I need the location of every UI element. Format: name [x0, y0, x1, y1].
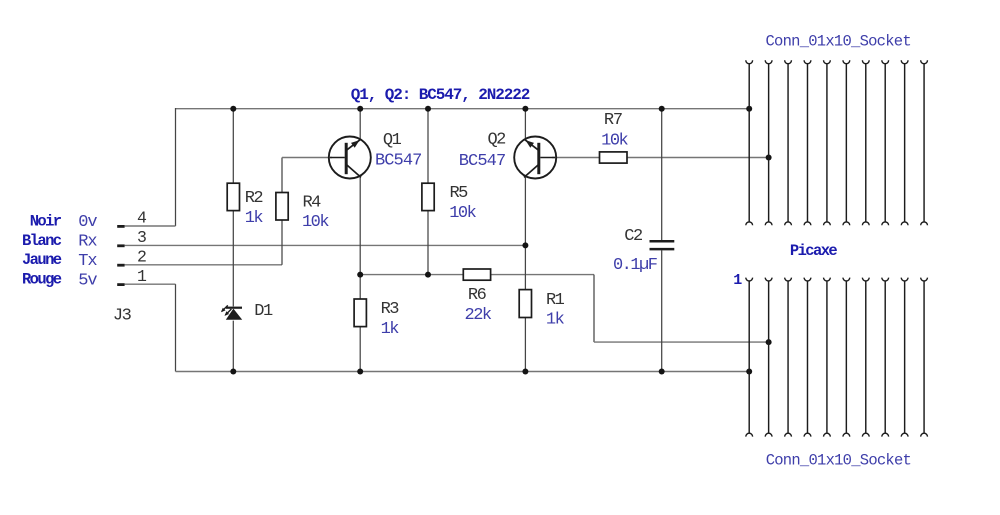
svg-text:0.1µF: 0.1µF — [613, 256, 657, 275]
wire — [232, 321, 234, 372]
wire — [359, 109, 361, 140]
resistor R6 — [463, 269, 490, 280]
wire — [125, 225, 176, 227]
resistor R5 — [422, 183, 434, 210]
wire — [491, 274, 594, 276]
junction — [746, 369, 752, 375]
svg-text:4: 4 — [137, 209, 147, 228]
wire — [359, 177, 361, 275]
svg-text:R4: R4 — [302, 194, 321, 213]
resistor R3 — [354, 299, 366, 327]
wire — [360, 274, 463, 276]
wire — [281, 158, 283, 193]
svg-text:1k: 1k — [381, 320, 400, 339]
wire — [552, 157, 600, 159]
svg-text:Jaune: Jaune — [22, 251, 62, 269]
connector Conn_01x10_Socket top pin 3 — [785, 60, 792, 225]
svg-text:BC547: BC547 — [375, 152, 422, 171]
wire — [175, 108, 177, 226]
svg-text:R2: R2 — [245, 189, 263, 208]
wire — [627, 157, 769, 159]
svg-text:10k: 10k — [302, 213, 329, 232]
svg-text:5v: 5v — [78, 271, 97, 290]
resistor R1 — [519, 290, 531, 318]
svg-text:Blanc: Blanc — [22, 232, 62, 250]
wire — [232, 109, 234, 184]
svg-text:R7: R7 — [604, 111, 622, 130]
svg-text:10k: 10k — [601, 132, 628, 151]
junction — [766, 155, 772, 161]
svg-text:Q1, Q2: BC547, 2N2222: Q1, Q2: BC547, 2N2222 — [351, 86, 530, 104]
wire — [359, 327, 361, 372]
svg-text:D1: D1 — [254, 302, 273, 321]
wire — [359, 275, 361, 299]
connector Conn_01x10_Socket top pin 8 — [882, 60, 889, 225]
wire — [281, 220, 283, 265]
connector Conn_01x10_Socket bottom pin 5 — [824, 278, 831, 437]
wire — [524, 318, 526, 372]
junction — [357, 272, 363, 278]
svg-text:1k: 1k — [546, 310, 565, 329]
svg-text:Noir: Noir — [30, 212, 62, 230]
junction — [522, 242, 528, 248]
wire — [175, 284, 177, 371]
connector Conn_01x10_Socket bottom pin 7 — [862, 278, 869, 437]
connector Conn_01x10_Socket top pin 10 — [921, 60, 928, 225]
svg-text:Picaxe: Picaxe — [790, 242, 838, 260]
svg-text:Tx: Tx — [78, 252, 97, 271]
capacitor C2 — [650, 241, 675, 249]
junction — [425, 106, 431, 112]
transistor Q2 — [514, 137, 556, 179]
svg-text:1: 1 — [733, 272, 742, 289]
connector J3 pin 2 — [117, 264, 124, 267]
connector Conn_01x10_Socket bottom pin 8 — [882, 278, 889, 437]
connector Conn_01x10_Socket bottom pin 3 — [785, 278, 792, 437]
connector Conn_01x10_Socket top pin 1 — [746, 60, 753, 225]
wire — [661, 250, 663, 371]
svg-text:R5: R5 — [449, 184, 468, 203]
resistor R7 — [600, 152, 628, 163]
svg-text:R6: R6 — [468, 286, 487, 305]
transistor Q1 — [329, 137, 371, 179]
svg-text:Rx: Rx — [78, 233, 97, 252]
svg-text:10k: 10k — [449, 204, 476, 223]
junction — [357, 369, 363, 375]
connector Conn_01x10_Socket bottom pin 2 — [765, 278, 772, 437]
wire — [524, 177, 526, 290]
wire — [524, 109, 526, 140]
connector J3 pin 1 — [117, 283, 124, 286]
svg-text:Q2: Q2 — [487, 131, 505, 150]
connector J3 pin 4 — [117, 225, 124, 228]
svg-text:1: 1 — [137, 267, 147, 286]
junction — [357, 106, 363, 112]
junction — [659, 369, 665, 375]
svg-text:3: 3 — [137, 228, 147, 247]
svg-text:R3: R3 — [381, 300, 400, 319]
wire — [176, 371, 750, 373]
connector Conn_01x10_Socket bottom pin 10 — [921, 278, 928, 437]
junction — [230, 369, 236, 375]
connector Conn_01x10_Socket bottom pin 1 — [746, 278, 753, 437]
wire — [176, 108, 750, 110]
resistor R2 — [227, 183, 239, 210]
connector Conn_01x10_Socket top pin 2 — [765, 60, 772, 225]
svg-text:R1: R1 — [546, 291, 565, 310]
svg-text:Conn_01x10_Socket: Conn_01x10_Socket — [766, 452, 911, 470]
connector Conn_01x10_Socket bottom pin 9 — [901, 278, 908, 437]
resistor R4 — [276, 193, 288, 221]
wire — [661, 109, 663, 240]
connector Conn_01x10_Socket bottom pin 6 — [843, 278, 850, 437]
junction — [659, 106, 665, 112]
junction — [522, 106, 528, 112]
svg-text:2: 2 — [137, 247, 147, 266]
svg-text:Rouge: Rouge — [22, 271, 62, 289]
connector J3 pin 3 — [117, 244, 124, 247]
connector Conn_01x10_Socket top pin 6 — [843, 60, 850, 225]
connector Conn_01x10_Socket top pin 4 — [804, 60, 811, 225]
svg-text:1k: 1k — [245, 209, 264, 228]
svg-text:Q1: Q1 — [383, 131, 402, 150]
junction — [746, 106, 752, 112]
connector Conn_01x10_Socket top pin 5 — [824, 60, 831, 225]
svg-text:Conn_01x10_Socket: Conn_01x10_Socket — [766, 32, 911, 50]
svg-text:C2: C2 — [624, 227, 642, 246]
connector Conn_01x10_Socket bottom pin 4 — [804, 278, 811, 437]
wire — [125, 244, 526, 246]
junction — [425, 272, 431, 278]
wire — [125, 283, 176, 285]
connector Conn_01x10_Socket top pin 7 — [862, 60, 869, 225]
junction — [230, 106, 236, 112]
wire — [427, 109, 429, 184]
svg-text:J3: J3 — [113, 307, 132, 326]
junction — [766, 339, 772, 345]
diode D1 — [221, 305, 242, 319]
svg-text:22k: 22k — [465, 306, 492, 325]
connector Conn_01x10_Socket top pin 9 — [901, 60, 908, 225]
svg-text:0v: 0v — [78, 213, 97, 232]
junction — [522, 369, 528, 375]
wire — [232, 211, 234, 307]
svg-text:BC547: BC547 — [459, 152, 506, 171]
wire — [427, 211, 429, 275]
wire — [125, 264, 282, 266]
